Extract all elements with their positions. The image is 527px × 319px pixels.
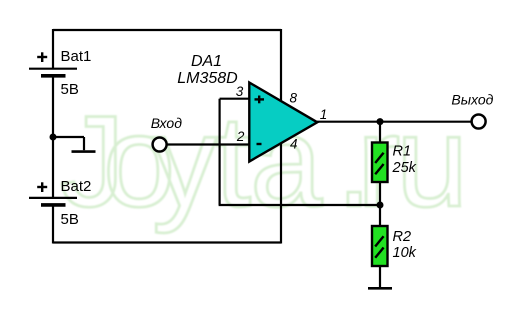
wire Bat1 to Bat2 (52, 77, 54, 197)
svg-text:5B: 5B (61, 81, 79, 98)
svg-text:1: 1 (320, 107, 328, 122)
svg-text:R2: R2 (393, 229, 412, 245)
wire R1 to node (379, 183, 381, 206)
label + (Bat2) (37, 182, 47, 192)
wire left vertical upper (top rail to Bat1) (52, 29, 54, 68)
node R1/R2 (377, 202, 384, 209)
svg-text:Bat2: Bat2 (61, 178, 92, 195)
battery Bat2 (29, 198, 77, 205)
svg-text:Выход: Выход (451, 92, 493, 108)
svg-text:Bat1: Bat1 (61, 48, 92, 65)
ground (mid) (72, 150, 96, 153)
wire output node to R1 (379, 122, 381, 143)
svg-text:8: 8 (290, 91, 298, 106)
resistor R2 (372, 226, 388, 266)
wire bottom rail (53, 241, 281, 243)
battery Bat1 (29, 69, 77, 76)
label - (op-amp) (257, 143, 262, 145)
wire feedback horizontal (219, 204, 380, 206)
wire feedback vertical (219, 99, 221, 205)
wire Bat2 to bottom rail (52, 206, 54, 244)
wire ground stub horizontal (53, 136, 84, 138)
ground (bottom) (368, 287, 392, 290)
svg-text:DA1: DA1 (191, 53, 222, 70)
wire node to R2 (379, 205, 381, 226)
svg-text:LM358D: LM358D (177, 70, 238, 87)
op-amp DA1 triangle (249, 83, 317, 162)
wire top rail (53, 29, 281, 31)
svg-text:y: y (152, 88, 217, 234)
wire input to pin2 (166, 143, 249, 145)
terminal output circle (472, 115, 486, 129)
svg-text:2: 2 (236, 129, 245, 144)
wire pin4 vertical (280, 142, 282, 244)
node output/R1 (377, 118, 384, 125)
label + (Bat1) (37, 52, 47, 62)
wire output (317, 121, 472, 123)
label + (op-amp) (255, 96, 265, 104)
resistor R1 (372, 143, 388, 183)
wire pin3 (220, 98, 250, 100)
svg-text:Вход: Вход (151, 115, 183, 131)
svg-text:3: 3 (236, 84, 244, 99)
svg-text:R1: R1 (393, 144, 412, 160)
node junction batteries (50, 134, 57, 141)
svg-text:25k: 25k (392, 160, 417, 176)
terminal input circle (153, 138, 167, 152)
wire R2 to ground (379, 267, 381, 289)
svg-text:10k: 10k (393, 245, 417, 261)
wire ground stub vertical (83, 137, 85, 150)
wire pin8 vertical (280, 29, 282, 103)
svg-text:5B: 5B (61, 211, 79, 228)
svg-text:4: 4 (290, 137, 298, 152)
